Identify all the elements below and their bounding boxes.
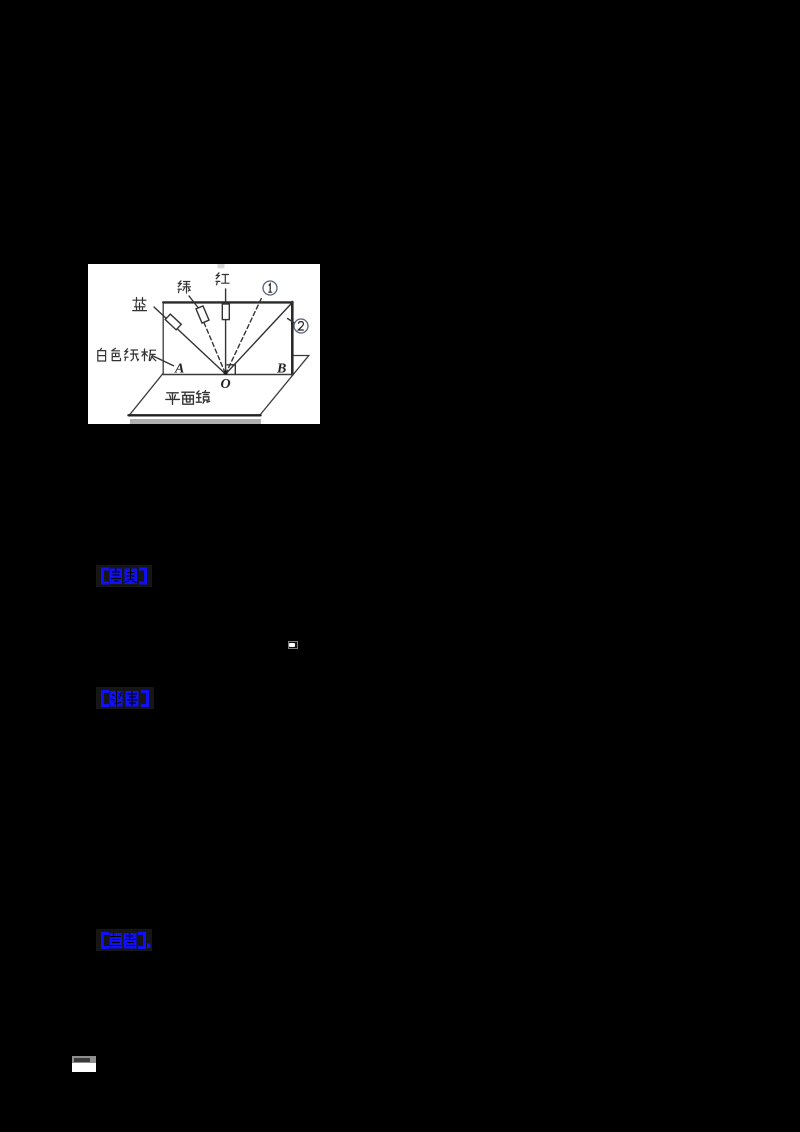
blue incident ray — [154, 307, 226, 374]
dark halo 2 — [96, 687, 154, 709]
board left edge — [162, 302, 164, 375]
blue label 2 — [100, 690, 150, 712]
red filter rectangle — [222, 304, 229, 320]
svg-text:O: O — [221, 377, 231, 392]
label white paper board (4 chars) — [98, 348, 156, 361]
leader line from label to board — [153, 356, 174, 366]
cardboard (white board) — [163, 302, 292, 375]
digit 2 — [298, 322, 304, 330]
dashed ray 1 — [226, 297, 262, 374]
board top edge — [163, 301, 292, 303]
svg-text:A: A — [174, 362, 184, 377]
mirror front edge (thick) — [129, 414, 261, 416]
mirror parallelogram — [130, 356, 309, 416]
board right edge — [291, 302, 294, 375]
ping — [166, 393, 180, 405]
mirror shadow bar — [130, 419, 261, 424]
blue label 3 — [100, 932, 152, 954]
board bottom edge — [163, 374, 292, 376]
red incident ray — [225, 289, 227, 374]
bottom-left artifact — [72, 1056, 96, 1072]
char lan (blue) — [133, 298, 147, 311]
green dashed ray to O — [204, 323, 226, 374]
dot at O — [224, 371, 228, 375]
digit 1 — [268, 284, 272, 292]
physics figure: white cardboard on plane mirror — [88, 264, 320, 424]
char lv (green) — [178, 281, 191, 293]
mian — [182, 392, 194, 404]
blue filter rectangle — [165, 314, 181, 330]
bai — [98, 348, 106, 361]
dark halo 1 — [96, 565, 152, 587]
blue label 1 — [100, 567, 148, 590]
circled 1 — [263, 281, 277, 295]
CJK drawn glyphs — [98, 273, 229, 405]
faint scan artifact above red label — [218, 264, 225, 268]
zhi — [125, 349, 139, 361]
char hong (red) — [216, 273, 229, 285]
green incident ray upper solid part — [189, 296, 198, 308]
small inline artifact — [288, 641, 298, 649]
label plane mirror (3 chars) — [166, 391, 210, 405]
leader line for ray 2 label — [288, 319, 295, 324]
green filter rectangle — [196, 306, 209, 323]
right angle mark at O — [227, 365, 235, 374]
se — [112, 348, 121, 360]
ban — [142, 349, 156, 361]
jing — [196, 391, 209, 404]
svg-text:B: B — [276, 362, 286, 377]
dark halo 3 — [96, 929, 152, 951]
circled 2 — [294, 319, 308, 333]
solid ray 2 to top-right corner — [226, 303, 293, 375]
